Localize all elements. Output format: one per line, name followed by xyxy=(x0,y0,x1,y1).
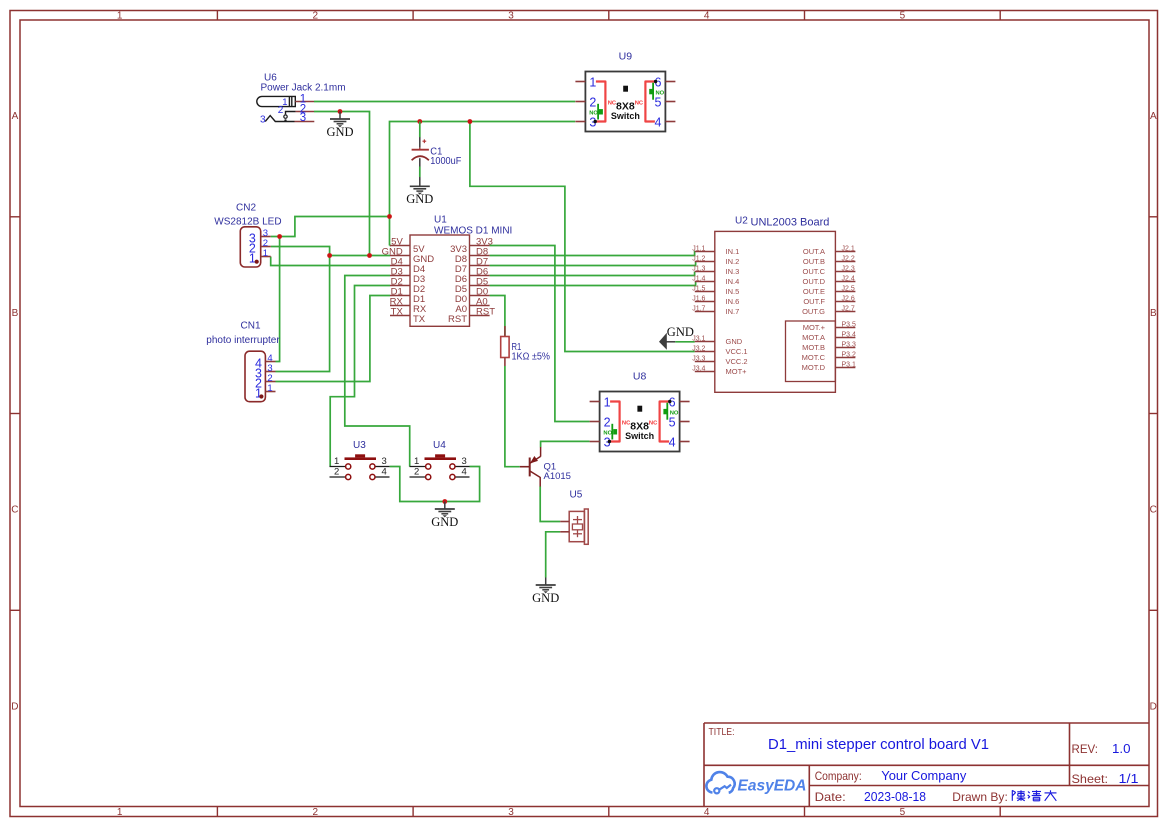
svg-text:IN.2: IN.2 xyxy=(726,257,740,266)
svg-text:TX: TX xyxy=(391,307,404,318)
svg-text:2: 2 xyxy=(589,96,596,110)
svg-text:Drawn By:: Drawn By: xyxy=(952,790,1008,804)
svg-text:MOT.D: MOT.D xyxy=(802,363,826,372)
svg-text:Switch: Switch xyxy=(611,111,640,121)
svg-text:J2.4: J2.4 xyxy=(842,275,855,282)
svg-text:TITLE:: TITLE: xyxy=(709,727,735,738)
svg-text:3: 3 xyxy=(382,456,387,467)
svg-text:IN.4: IN.4 xyxy=(726,277,740,286)
svg-text:GND: GND xyxy=(326,125,353,139)
svg-text:4: 4 xyxy=(382,467,387,478)
svg-text:U2: U2 xyxy=(735,216,748,227)
svg-text:A: A xyxy=(1150,111,1157,122)
svg-text:1: 1 xyxy=(334,456,339,467)
svg-text:D: D xyxy=(11,701,18,712)
svg-text:D: D xyxy=(1150,701,1157,712)
svg-text:NO: NO xyxy=(656,91,665,97)
svg-text:P3.4: P3.4 xyxy=(842,331,857,338)
svg-text:5: 5 xyxy=(900,11,906,22)
svg-text:TX: TX xyxy=(413,314,426,325)
svg-text:VCC.1: VCC.1 xyxy=(726,347,748,356)
svg-text:J2.6: J2.6 xyxy=(842,295,855,302)
svg-text:J2.1: J2.1 xyxy=(842,245,855,252)
svg-text:UNL2003 Board: UNL2003 Board xyxy=(751,216,830,228)
svg-text:1: 1 xyxy=(267,383,272,394)
svg-text:C: C xyxy=(1150,505,1157,516)
svg-text:GND: GND xyxy=(726,337,743,346)
svg-text:CN1: CN1 xyxy=(241,321,261,332)
svg-text:1/1: 1/1 xyxy=(1119,772,1139,786)
svg-text:MOT.A: MOT.A xyxy=(802,333,825,342)
svg-text:Power Jack 2.1mm: Power Jack 2.1mm xyxy=(261,82,346,93)
svg-text:2023-08-18: 2023-08-18 xyxy=(864,790,926,804)
svg-text:GND: GND xyxy=(431,515,458,529)
svg-text:OUT.D: OUT.D xyxy=(803,277,826,286)
svg-text:OUT.A: OUT.A xyxy=(803,247,825,256)
svg-text:2: 2 xyxy=(414,467,419,478)
svg-text:IN.5: IN.5 xyxy=(726,287,740,296)
svg-text:GND: GND xyxy=(532,591,559,605)
svg-text:J2.2: J2.2 xyxy=(842,255,855,262)
svg-text:RST: RST xyxy=(448,314,467,325)
svg-text:EasyEDA: EasyEDA xyxy=(738,777,807,794)
svg-text:NC: NC xyxy=(649,420,658,426)
svg-text:1: 1 xyxy=(249,252,256,266)
svg-text:5: 5 xyxy=(654,96,661,110)
svg-text:1: 1 xyxy=(263,248,268,259)
svg-text:U9: U9 xyxy=(619,51,633,63)
svg-text:J1.3: J1.3 xyxy=(692,265,705,272)
svg-text:P3.3: P3.3 xyxy=(842,341,857,348)
svg-text:U1: U1 xyxy=(434,215,447,226)
svg-text:OUT.B: OUT.B xyxy=(803,257,825,266)
svg-text:Sheet:: Sheet: xyxy=(1072,772,1109,786)
svg-text:NO: NO xyxy=(589,111,598,117)
svg-text:3: 3 xyxy=(260,115,266,126)
svg-text:2: 2 xyxy=(334,467,339,478)
svg-text:NO: NO xyxy=(670,411,679,417)
svg-text:MOT.B: MOT.B xyxy=(802,343,825,352)
svg-text:NC: NC xyxy=(635,100,644,106)
svg-text:4: 4 xyxy=(654,116,661,130)
svg-text:MOT+: MOT+ xyxy=(726,367,748,376)
svg-text:J2.3: J2.3 xyxy=(842,265,855,272)
svg-text:2: 2 xyxy=(278,105,284,116)
svg-text:J3.4: J3.4 xyxy=(692,365,705,372)
svg-text:U3: U3 xyxy=(353,440,366,451)
svg-text:A1015: A1015 xyxy=(544,471,571,482)
svg-text:photo interrupter: photo interrupter xyxy=(206,335,280,346)
svg-text:IN.6: IN.6 xyxy=(726,297,740,306)
svg-text:1000uF: 1000uF xyxy=(430,156,461,167)
svg-text:2: 2 xyxy=(313,807,319,818)
svg-text:3: 3 xyxy=(300,112,306,124)
svg-text:3: 3 xyxy=(508,807,514,818)
svg-text:J1.4: J1.4 xyxy=(692,275,705,282)
svg-text:RST: RST xyxy=(476,307,495,318)
svg-text:4: 4 xyxy=(704,807,710,818)
svg-text:IN.3: IN.3 xyxy=(726,267,740,276)
svg-text:REV:: REV: xyxy=(1072,744,1099,756)
svg-text:P3.1: P3.1 xyxy=(842,361,857,368)
svg-text:4: 4 xyxy=(704,11,710,22)
svg-text:1: 1 xyxy=(589,76,596,90)
svg-text:Switch: Switch xyxy=(625,431,654,441)
svg-text:U5: U5 xyxy=(570,490,583,501)
svg-text:1: 1 xyxy=(117,11,123,22)
svg-text:D1_mini stepper control board: D1_mini stepper control board V1 xyxy=(768,737,989,753)
svg-text:J1.5: J1.5 xyxy=(692,285,705,292)
svg-text:P3.5: P3.5 xyxy=(842,321,857,328)
svg-text:5: 5 xyxy=(900,807,906,818)
svg-text:GND: GND xyxy=(667,325,694,339)
svg-text:OUT.F: OUT.F xyxy=(803,297,825,306)
svg-text:2: 2 xyxy=(313,11,319,22)
svg-text:1.0: 1.0 xyxy=(1112,742,1131,756)
svg-text:J3.1: J3.1 xyxy=(692,335,705,342)
svg-text:Your Company: Your Company xyxy=(881,769,967,783)
svg-text:P3.2: P3.2 xyxy=(842,351,857,358)
svg-text:GND: GND xyxy=(406,192,433,206)
svg-text:U4: U4 xyxy=(433,440,446,451)
svg-text:1: 1 xyxy=(255,387,262,401)
svg-text:B: B xyxy=(1150,308,1157,319)
svg-text:3: 3 xyxy=(462,456,467,467)
svg-text:J1.7: J1.7 xyxy=(692,305,705,312)
svg-text:Date:: Date: xyxy=(815,790,846,804)
svg-text:IN.7: IN.7 xyxy=(726,307,740,316)
svg-text:NO: NO xyxy=(603,431,612,437)
svg-text:1KΩ ±5%: 1KΩ ±5% xyxy=(512,351,551,362)
svg-text:OUT.E: OUT.E xyxy=(803,287,825,296)
svg-text:1: 1 xyxy=(117,807,123,818)
svg-text:2: 2 xyxy=(604,416,611,430)
svg-text:3: 3 xyxy=(508,11,514,22)
svg-text:1: 1 xyxy=(604,396,611,410)
svg-text:C: C xyxy=(11,505,18,516)
svg-text:4: 4 xyxy=(462,467,467,478)
svg-text:J2.7: J2.7 xyxy=(842,305,855,312)
svg-text:J3.3: J3.3 xyxy=(692,355,705,362)
svg-text:J2.5: J2.5 xyxy=(842,285,855,292)
svg-text:MOT.+: MOT.+ xyxy=(803,323,826,332)
svg-text:J1.6: J1.6 xyxy=(692,295,705,302)
svg-text:MOT.C: MOT.C xyxy=(802,353,826,362)
svg-text:A: A xyxy=(12,111,19,122)
svg-text:IN.1: IN.1 xyxy=(726,247,740,256)
svg-text:Company:: Company: xyxy=(815,769,862,783)
svg-text:J3.2: J3.2 xyxy=(692,345,705,352)
svg-text:CN2: CN2 xyxy=(236,202,256,213)
svg-text:4: 4 xyxy=(669,436,676,450)
svg-text:1: 1 xyxy=(414,456,419,467)
svg-text:J1.1: J1.1 xyxy=(692,245,705,252)
svg-text:5: 5 xyxy=(669,416,676,430)
svg-text:B: B xyxy=(12,308,19,319)
svg-text:VCC.2: VCC.2 xyxy=(726,357,748,366)
svg-text:OUT.C: OUT.C xyxy=(803,267,826,276)
svg-text:U8: U8 xyxy=(633,371,647,383)
svg-text:OUT.G: OUT.G xyxy=(802,307,825,316)
svg-text:J1.2: J1.2 xyxy=(692,255,705,262)
